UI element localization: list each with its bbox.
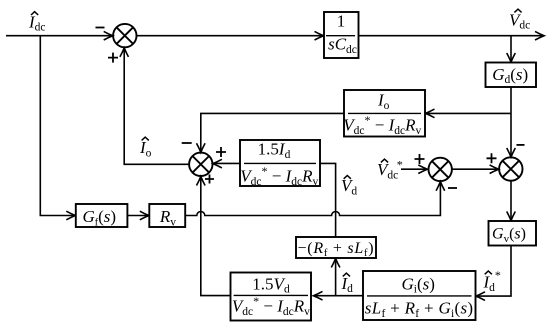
plus sign sum2 right bbox=[216, 147, 226, 157]
wire Idc input to sum1 bbox=[6, 35, 112, 37]
plus sign sum3 left bbox=[415, 154, 425, 164]
arrow into sum4 top bbox=[507, 148, 516, 157]
wire Gf to Rv bbox=[127, 215, 148, 217]
svg-text:Gi(s): Gi(s) bbox=[401, 274, 434, 295]
arrow into sum2 top bbox=[197, 143, 206, 152]
bar in 1.5Id block bbox=[244, 162, 316, 164]
arrow into 1.5Vd block bbox=[313, 291, 322, 300]
block Rv bbox=[149, 204, 185, 227]
arrow into sum3 left bbox=[418, 165, 427, 174]
wire Vdc node down to Gd block bbox=[510, 36, 512, 62]
minus sign sum1 left bbox=[96, 27, 105, 29]
wire node to Io block input bbox=[426, 112, 511, 114]
wire Rv output line with hops to sum3 bottom bbox=[185, 183, 440, 216]
summing junctions bbox=[113, 24, 522, 181]
block Gv(s) bbox=[489, 221, 537, 246]
arrow into sum1 left bbox=[104, 31, 113, 40]
blocks bbox=[76, 12, 536, 321]
block texts bbox=[83, 12, 529, 320]
svg-text:Gv(s): Gv(s) bbox=[492, 226, 526, 245]
sum junction S1 bbox=[113, 24, 136, 47]
arrow into sum1 bottom bbox=[120, 48, 129, 57]
arrow into Io block bbox=[425, 109, 434, 118]
wire sum3 output to sum4 bbox=[452, 168, 498, 170]
wire sum4 output to Gv block bbox=[510, 181, 512, 220]
bar in 1.5Vd block bbox=[234, 294, 308, 296]
minus sign sum3 bottom bbox=[448, 187, 457, 189]
arrow into Cdc block bbox=[315, 31, 324, 40]
plus sign sum2 bottom bbox=[205, 175, 214, 184]
arrow into Rf+sLf block bottom bbox=[331, 258, 340, 267]
wire Cdc block to Vdc output bbox=[359, 35, 544, 37]
wire Idc branch down to Gf bbox=[40, 36, 75, 216]
wire Vdcref input to sum3 bbox=[401, 168, 427, 170]
minus sign sum4 top bbox=[517, 144, 525, 146]
arrow into sum2 right bbox=[213, 159, 222, 168]
wire 1.5Vd output up to sum2 bottom bbox=[201, 177, 231, 296]
arrow into Gi block bbox=[476, 292, 485, 301]
bar in 1/sCdc bbox=[326, 35, 355, 37]
fraction bars bbox=[234, 36, 472, 296]
minus sign sum2 top bbox=[182, 142, 192, 144]
arrow into sum2 bottom bbox=[197, 176, 206, 185]
wire Gi output to 1.5Vd block input bbox=[314, 295, 363, 297]
plus sign sum4 left bbox=[487, 153, 497, 163]
plus minus signs bbox=[96, 28, 525, 189]
wire Id node to Rf+sLf block input bbox=[335, 259, 337, 296]
bar in Gi block bbox=[367, 295, 472, 297]
arrow into sum4 left bbox=[490, 165, 499, 174]
bar in Io block bbox=[348, 112, 421, 114]
svg-text:sLf + Rf + Gi(s): sLf + Rf + Gi(s) bbox=[365, 299, 474, 320]
svg-text:1: 1 bbox=[337, 12, 346, 31]
arrow Vdc output bbox=[535, 31, 544, 40]
block -(Rf+sLf) bbox=[296, 237, 376, 258]
wire 1.5Id block output to sum2 right bbox=[213, 162, 240, 164]
arrow into Gd block bbox=[507, 53, 516, 62]
arrow into Rv block bbox=[140, 211, 149, 220]
svg-text:−(Rf + sLf): −(Rf + sLf) bbox=[297, 240, 374, 259]
arrowheads bbox=[66, 31, 544, 300]
block Io/(Vdc*-IdcRv) bbox=[344, 90, 425, 137]
sum junction S2 bbox=[189, 153, 212, 176]
arrow into Gf block bbox=[66, 211, 75, 220]
arrow into Gv block bbox=[507, 212, 516, 221]
wire Vd node to 1.5Id block input bbox=[320, 163, 336, 237]
block 1/sCdc bbox=[324, 12, 359, 58]
wire sum1 to Cdc block bbox=[137, 35, 324, 37]
svg-text:Gf(s): Gf(s) bbox=[83, 207, 117, 228]
sum junction S4 bbox=[499, 157, 522, 180]
block Gf(s) bbox=[76, 204, 128, 227]
arrow into sum3 bottom bbox=[436, 182, 445, 191]
sum junction S3 bbox=[429, 158, 452, 181]
block Gi(s)/(sLf+Rf+Gi(s)) bbox=[363, 271, 476, 320]
plus sign sum1 bottom bbox=[108, 53, 118, 63]
wire Io block output to sum2 top bbox=[201, 113, 344, 151]
block 1.5Vd/(Vdc*-IdcRv) bbox=[231, 273, 312, 321]
block Gd(s) bbox=[486, 63, 537, 88]
wire sum2 output to sum1 bottom bbox=[124, 48, 189, 164]
block 1.5Id/(Vdc*-IdcRv) bbox=[240, 140, 320, 186]
wire Gv output to Gi block input bbox=[477, 246, 511, 297]
svg-text:Gd(s): Gd(s) bbox=[492, 65, 528, 86]
wire Gd block down to sum4 bbox=[510, 87, 512, 156]
